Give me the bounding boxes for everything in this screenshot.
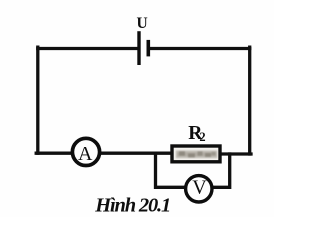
svg-text:V: V: [192, 177, 207, 199]
svg-text:Hình 20.1: Hình 20.1: [94, 195, 171, 217]
svg-text:2: 2: [199, 130, 205, 144]
svg-text:A: A: [78, 143, 93, 165]
svg-text:U: U: [137, 15, 148, 32]
